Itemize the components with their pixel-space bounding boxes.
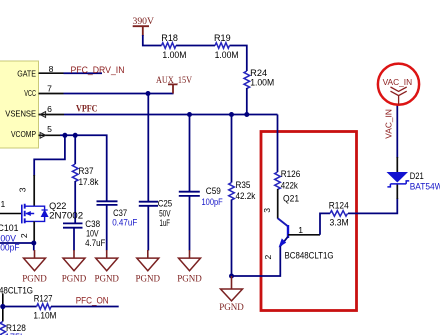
pin 6 VSENSE wire [39, 104, 278, 118]
wire R124 to D21 [348, 184, 397, 213]
ground PGND (C37) [94, 250, 119, 284]
resistor R126 [275, 169, 301, 191]
resistor R127 [33, 294, 56, 321]
svg-text:10V: 10V [86, 228, 99, 238]
svg-text:1: 1 [1, 199, 6, 209]
svg-text:48CLT1G: 48CLT1G [0, 286, 33, 296]
svg-text:R37: R37 [79, 166, 94, 176]
svg-text:2: 2 [19, 233, 29, 238]
power symbol 390V [133, 16, 155, 36]
wire C37 to ground [106, 205, 108, 251]
resistor R35 [229, 180, 256, 201]
ground PGND (C59) [177, 250, 202, 284]
wire R35 bottom to junction [231, 200, 233, 277]
svg-text:17.8k: 17.8k [79, 177, 99, 187]
junction VSENSE / R35 [229, 112, 234, 117]
wire VCC to C25 [147, 94, 149, 202]
svg-text:100pF: 100pF [0, 242, 20, 252]
svg-text:422k: 422k [281, 180, 299, 190]
svg-text:1.00M: 1.00M [162, 50, 186, 60]
wire VCOMP to R37 [74, 135, 76, 164]
transistor Q21 [232, 189, 334, 276]
wire D21 to VAC_IN [396, 105, 398, 172]
svg-text:PGND: PGND [136, 274, 161, 284]
svg-text:1uF: 1uF [160, 218, 171, 228]
junction R35 / Q21 emitter [229, 274, 234, 279]
svg-text:2N7002: 2N7002 [49, 210, 83, 220]
ground PGND (C38) [62, 250, 87, 284]
junction VSENSE / C59 [187, 112, 192, 117]
capacitor C25 [139, 199, 172, 228]
svg-text:Q21: Q21 [283, 193, 299, 203]
wire C101 to junction [0, 242, 34, 244]
svg-text:C59: C59 [206, 186, 221, 196]
pin 7 VCC wire [39, 84, 174, 94]
junction R127 / R128 [0, 304, 5, 309]
svg-text:1.00M: 1.00M [250, 77, 274, 87]
junction VSENSE / R24 [244, 112, 249, 117]
wire junction to ground [33, 243, 35, 251]
svg-text:PFC_ON: PFC_ON [76, 296, 109, 306]
resistor R124 [329, 201, 349, 228]
net label VAC_IN vertical [384, 109, 394, 139]
capacitor C59 [179, 186, 223, 207]
svg-text:3: 3 [262, 208, 272, 213]
svg-text:1.00M: 1.00M [215, 50, 239, 60]
svg-text:BAT54WT: BAT54WT [410, 181, 440, 191]
mosfet Q22 [0, 187, 83, 238]
wire R37 to C38 [74, 181, 76, 223]
ground PGND (Q22) [22, 250, 47, 284]
svg-text:5: 5 [47, 124, 52, 134]
junction VCC / C25 [146, 91, 151, 96]
svg-text:BC848CLT1G: BC848CLT1G [285, 251, 334, 261]
junction VCOMP / Q22 branch [62, 133, 67, 138]
capacitor C38 [63, 219, 106, 248]
pin 5 VCOMP wire [39, 124, 107, 201]
svg-text:VAC_IN: VAC_IN [383, 77, 413, 87]
wire R24 to VSENSE [246, 88, 248, 115]
svg-text:VSENSE: VSENSE [5, 109, 36, 118]
capacitor C101 (partial, off-page) [0, 223, 20, 252]
wire R35 top [231, 115, 233, 183]
wire junction to R127 [3, 306, 37, 308]
pin 8 GATE wire [39, 64, 103, 74]
offpage connector VAC_IN [378, 64, 419, 105]
transistor label (partial) 48CLT1G [0, 286, 33, 296]
svg-text:C25: C25 [158, 199, 172, 209]
highlight box around Q21 stage [261, 132, 357, 311]
svg-text:Q22: Q22 [49, 201, 66, 211]
svg-text:1: 1 [298, 225, 303, 235]
capacitor C37 [97, 201, 138, 227]
svg-text:C101: C101 [0, 223, 19, 233]
junction VCOMP / R37 branch [73, 133, 78, 138]
svg-text:VCOMP: VCOMP [11, 130, 36, 139]
wire C25 to ground [147, 206, 149, 251]
svg-text:R127: R127 [34, 294, 53, 304]
wire Q22 source to ground junction [33, 221, 35, 243]
svg-text:100pF: 100pF [202, 197, 224, 207]
svg-text:R18: R18 [161, 33, 178, 43]
svg-text:1.10M: 1.10M [33, 310, 56, 320]
svg-text:4.7uF: 4.7uF [85, 238, 106, 248]
resistor R18 [161, 33, 186, 60]
power symbol AUX_15V [156, 75, 192, 94]
svg-text:D21: D21 [410, 171, 424, 181]
svg-text:42.2k: 42.2k [236, 191, 256, 201]
svg-text:PGND: PGND [62, 274, 87, 284]
svg-text:8: 8 [49, 64, 54, 74]
resistor R128 [0, 322, 26, 335]
net label VPFC [76, 104, 98, 115]
wire VCOMP to Q22 drain [34, 135, 65, 206]
svg-text:PGND: PGND [177, 274, 202, 284]
resistor R24 [244, 68, 274, 88]
svg-text:3: 3 [18, 187, 28, 192]
svg-text:R35: R35 [236, 180, 251, 190]
wire C38 to ground [73, 228, 75, 251]
IC pin header block [0, 61, 39, 148]
wire VSENSE to C59 [189, 115, 191, 192]
svg-text:PGND: PGND [219, 303, 244, 313]
net label PFC_DRV_IN [71, 65, 125, 75]
wire R127 to PFC_ON [51, 306, 119, 308]
ground PGND (C25) [136, 250, 161, 284]
wire 390V rail [143, 35, 247, 71]
ground PGND (Q21 emitter) [219, 276, 244, 313]
svg-text:3.3M: 3.3M [330, 218, 349, 228]
svg-text:7: 7 [47, 84, 52, 94]
svg-text:GATE: GATE [17, 69, 36, 78]
diode D21 BAT54WT [387, 171, 440, 191]
svg-text:PFC_DRV_IN: PFC_DRV_IN [71, 65, 125, 75]
svg-text:2: 2 [263, 255, 273, 260]
svg-text:PGND: PGND [22, 274, 47, 284]
net label PFC_ON [76, 296, 109, 306]
svg-text:R19: R19 [214, 33, 231, 43]
svg-text:VCC: VCC [24, 89, 36, 98]
wire VSENSE corner down to R126 [277, 115, 279, 173]
resistor R37 [72, 164, 98, 187]
svg-text:6: 6 [47, 104, 52, 114]
resistor R19 [214, 33, 239, 60]
svg-text:PGND: PGND [94, 274, 119, 284]
junction Q22 source / C101 [31, 241, 36, 246]
svg-text:R126: R126 [281, 169, 301, 179]
wire Q21 base to R124 [320, 213, 330, 234]
wire C59 to ground [189, 196, 191, 251]
svg-text:0.47uF: 0.47uF [112, 218, 137, 228]
svg-text:50V: 50V [159, 208, 171, 218]
wire emitter stub to junction [2, 294, 4, 322]
svg-text:VPFC: VPFC [76, 104, 98, 115]
svg-text:R124: R124 [329, 201, 349, 211]
svg-text:VAC_IN: VAC_IN [384, 109, 394, 139]
